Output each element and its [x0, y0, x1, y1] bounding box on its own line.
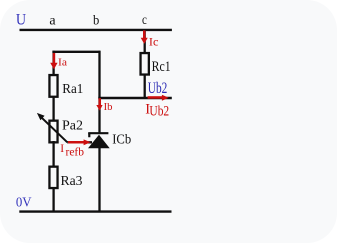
svg-text:Ub2: Ub2: [149, 104, 169, 120]
wire Rc1 to output node: [144, 75, 146, 99]
current arrow Ia: [50, 53, 57, 69]
wire connector a-b: [52, 51, 100, 53]
svg-text:Ia: Ia: [58, 58, 67, 69]
svg-text:a: a: [49, 14, 56, 29]
zener ICb triangle: [88, 135, 110, 149]
potentiometer Pa2: [49, 121, 57, 143]
wire middle branch lower: [98, 148, 100, 212]
wire top rail U: [20, 29, 172, 31]
wire output node horizontal: [98, 97, 172, 99]
wire Ra1-Pa2: [52, 97, 54, 121]
svg-text:Ub2: Ub2: [148, 80, 168, 97]
zener ICb bar: [88, 132, 108, 134]
svg-text:U: U: [16, 12, 27, 29]
svg-text:Rc1: Rc1: [152, 59, 171, 75]
svg-text:Ib: Ib: [104, 102, 113, 113]
wire wiper to ICb: [67, 141, 92, 143]
svg-text:I: I: [60, 143, 64, 155]
svg-text:b: b: [93, 14, 99, 29]
resistor Ra1: [49, 75, 57, 97]
wire Ra3 to 0V rail: [52, 187, 54, 212]
current arrow Irefb: [68, 139, 91, 145]
resistor Rc1: [141, 53, 149, 75]
wire left branch top segment: [52, 51, 54, 75]
wire middle branch upper: [98, 51, 100, 133]
svg-text:Pa2: Pa2: [62, 117, 83, 132]
zener ICb bar left tick: [88, 133, 90, 137]
wire bottom rail 0V: [19, 210, 171, 212]
svg-text:c: c: [142, 13, 147, 28]
potentiometer wiper arrow: [37, 113, 67, 142]
wire Pa2-Ra3: [52, 141, 54, 167]
svg-text:0V: 0V: [16, 196, 32, 211]
svg-text:Ra1: Ra1: [62, 81, 83, 96]
svg-text:refb: refb: [66, 146, 85, 158]
wire right branch top: [144, 29, 146, 53]
current arrow Ib: [96, 98, 102, 110]
current arrow IUb2: [148, 95, 169, 101]
resistor Ra3: [49, 167, 57, 188]
svg-text:Ra3: Ra3: [61, 174, 83, 189]
svg-text:Ic: Ic: [149, 34, 159, 48]
svg-text:ICb: ICb: [112, 133, 131, 148]
current arrow Ic: [141, 30, 148, 44]
